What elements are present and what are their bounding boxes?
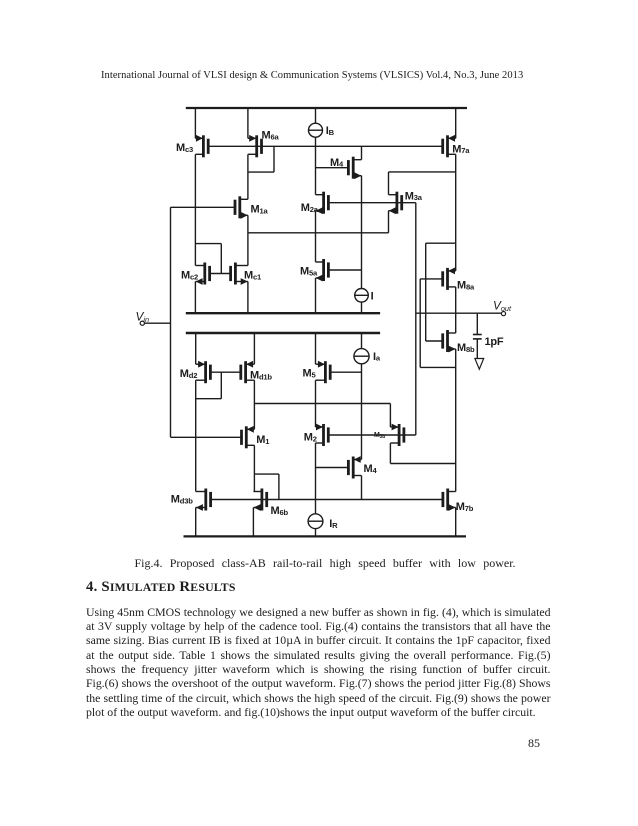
svg-text:IR: IR <box>329 518 338 530</box>
svg-text:M5: M5 <box>303 368 317 380</box>
svg-text:M6a: M6a <box>262 130 280 142</box>
svg-text:M8b: M8b <box>457 342 475 354</box>
svg-text:Vin: Vin <box>136 309 150 324</box>
svg-text:M3b: M3b <box>374 432 385 440</box>
svg-text:Mc3: Mc3 <box>176 142 193 154</box>
svg-text:M1a: M1a <box>251 204 269 216</box>
svg-text:Md2: Md2 <box>180 368 197 380</box>
svg-text:M6b: M6b <box>271 505 289 517</box>
svg-text:Md1b: Md1b <box>250 369 272 381</box>
svg-text:M5a: M5a <box>300 266 318 278</box>
svg-text:M1: M1 <box>256 434 270 446</box>
svg-text:Md3b: Md3b <box>171 494 193 506</box>
svg-text:Mc2: Mc2 <box>181 270 198 282</box>
svg-text:M7a: M7a <box>452 143 470 155</box>
svg-text:1pF: 1pF <box>485 336 504 348</box>
svg-text:M8a: M8a <box>457 280 475 292</box>
svg-text:M2a: M2a <box>301 202 319 214</box>
svg-text:I: I <box>371 291 374 303</box>
svg-text:IB: IB <box>326 125 335 137</box>
svg-text:M4: M4 <box>330 157 344 169</box>
svg-text:Vout: Vout <box>493 298 512 313</box>
svg-text:Mc1: Mc1 <box>244 270 262 282</box>
svg-text:M7b: M7b <box>456 501 474 513</box>
svg-text:M2: M2 <box>304 431 317 443</box>
svg-text:M4: M4 <box>364 463 378 475</box>
svg-text:M3a: M3a <box>405 190 423 202</box>
svg-text:Ia: Ia <box>373 351 381 363</box>
